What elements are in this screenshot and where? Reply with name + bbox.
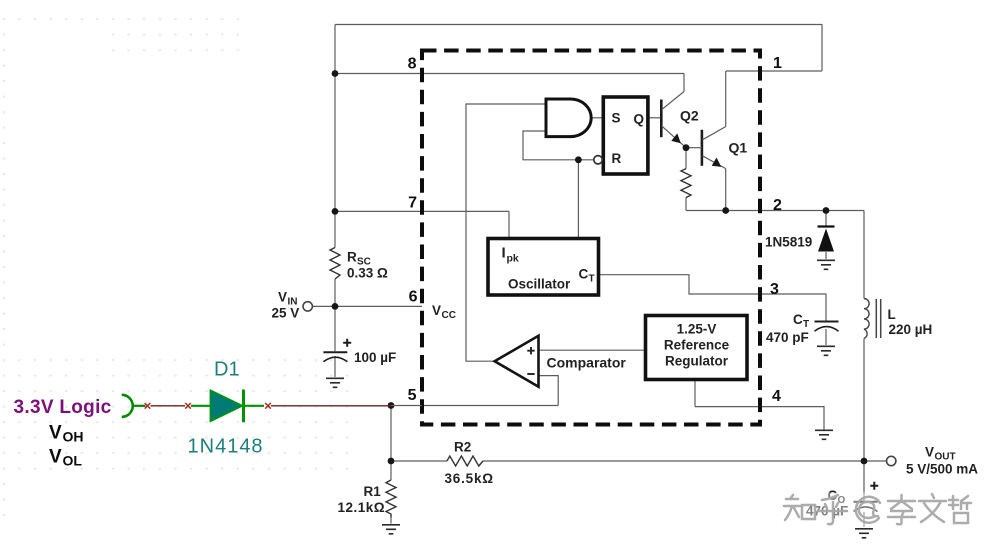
junction x mark 3 [265, 403, 271, 409]
svg-text:V: V [278, 290, 287, 305]
transistor Q2 [661, 92, 699, 148]
ground under R1 [382, 525, 400, 534]
capacitor CO 470uF [806, 482, 878, 519]
wire pin2 node down to inductor and to output node [863, 211, 865, 462]
svg-text:C: C [579, 267, 589, 282]
wire pin 1 [726, 70, 822, 72]
svg-text:2: 2 [773, 197, 782, 214]
svg-text:Q2: Q2 [680, 108, 699, 124]
reference regulator block U-ref [646, 316, 748, 380]
wire comparator minus input [539, 376, 559, 406]
node VOUT junction [861, 458, 868, 465]
svg-text:R: R [347, 250, 357, 265]
svg-text:C: C [793, 312, 803, 327]
wire pin 6 [312, 305, 422, 307]
resistor emitter R-E [681, 169, 691, 198]
watermark zhihu text [784, 494, 971, 524]
ground under 100uF cap [326, 378, 344, 387]
svg-text:0.33 Ω: 0.33 Ω [347, 266, 388, 281]
node pin2 diode junction [823, 207, 830, 214]
wire Q1 collector up to pin1 [725, 71, 727, 127]
VIN source terminal [272, 290, 313, 321]
svg-text:V: V [432, 303, 441, 318]
svg-text:Oscillator: Oscillator [508, 277, 571, 292]
svg-text:V: V [49, 447, 62, 468]
svg-text:R: R [612, 151, 622, 166]
node Q2 emitter junction [683, 144, 690, 151]
transistor Q1 [686, 127, 747, 169]
svg-text:L: L [888, 307, 896, 322]
diode 1N5819 [765, 227, 835, 252]
diode D1 1N4148 [191, 390, 264, 423]
svg-text:1.25-V: 1.25-V [677, 322, 717, 337]
svg-text:Regulator: Regulator [665, 354, 729, 369]
svg-text:12.1kΩ: 12.1kΩ [338, 500, 386, 515]
svg-text:3.3V Logic: 3.3V Logic [14, 397, 112, 418]
wire pin5 outside segment [391, 405, 422, 407]
dashed IC boundary box [422, 51, 760, 425]
comparator U-comp [495, 336, 627, 387]
wire pin 7 [335, 210, 509, 212]
wire R2 output line [391, 460, 887, 462]
svg-text:3: 3 [770, 281, 779, 298]
node R1 R2 junction [388, 458, 395, 465]
capacitor 100uF [323, 339, 396, 365]
svg-text:Q1: Q1 [729, 140, 748, 156]
wire Q1 emitter down [725, 169, 727, 211]
wire maroon segment 2 [271, 405, 391, 407]
svg-text:4: 4 [772, 388, 781, 405]
inductor L 220uH [864, 299, 932, 339]
svg-text:S: S [612, 111, 621, 126]
svg-text:Reference: Reference [664, 338, 730, 353]
wire pin5 node vertical to R1 R2 [390, 406, 392, 524]
wire pin 8 [335, 73, 684, 75]
svg-text:5: 5 [408, 387, 417, 404]
label VOL [49, 447, 82, 469]
wire AND lower input from R node [523, 131, 594, 160]
svg-text:5 V/500 mA: 5 V/500 mA [906, 462, 978, 477]
wire Q output to Q2 base [648, 117, 660, 119]
wire top rail [335, 25, 822, 72]
svg-text:D1: D1 [214, 359, 240, 381]
wire R node to oscillator [577, 160, 579, 239]
resistor R1 [338, 480, 397, 518]
wire pin 2 [686, 210, 864, 212]
resistor R2 [445, 440, 494, 487]
svg-text:Q: Q [634, 112, 645, 127]
svg-text:Comparator: Comparator [547, 355, 627, 371]
svg-text:36.5kΩ: 36.5kΩ [445, 471, 494, 486]
svg-text:470 pF: 470 pF [766, 330, 809, 345]
ground under CO cap [855, 529, 873, 538]
wire pin 5 [422, 405, 558, 407]
svg-text:1N4148: 1N4148 [188, 436, 264, 458]
svg-text:CC: CC [442, 310, 456, 321]
node pin7 junction [332, 208, 339, 215]
node pin8 rail junction [332, 70, 339, 77]
node Q1 emitter junction [722, 207, 729, 214]
svg-text:OH: OH [63, 429, 84, 445]
wire Ipk drop [508, 211, 510, 238]
svg-text:R2: R2 [454, 440, 471, 455]
svg-text:pk: pk [507, 253, 519, 265]
grid dots background [1, 16, 352, 518]
wire comparator output to AND input [466, 104, 546, 361]
connector arc logic input [122, 395, 146, 417]
wire oscillator CT to pin 3 and CT cap [599, 275, 827, 321]
wire AND output to S [591, 117, 603, 119]
ground under pin 4 [815, 430, 833, 439]
wire reference regulator to pin 4 [694, 380, 696, 407]
svg-text:V: V [925, 445, 934, 460]
node VIN junction [332, 303, 339, 310]
svg-text:6: 6 [409, 289, 418, 306]
oscillator block U-osc [488, 239, 599, 296]
node R-junction [575, 156, 582, 163]
SR latch U-latch [603, 97, 648, 174]
junction x mark 2 [185, 403, 191, 409]
capacitor CT 470pF [766, 312, 839, 345]
svg-text:8: 8 [408, 56, 417, 73]
wire left rail vertical [334, 25, 336, 378]
svg-text:R1: R1 [364, 484, 382, 499]
svg-text:V: V [49, 423, 62, 444]
watermark dim backdrop [781, 493, 973, 528]
junction x mark 1 [145, 403, 151, 409]
wire 1N5819 connections [825, 211, 827, 260]
wire maroon segment 1 [151, 405, 186, 407]
MAIN-WIRES [312, 25, 886, 528]
ground under 1N5819 [817, 260, 835, 269]
svg-text:7: 7 [408, 195, 417, 212]
VOUT terminal [887, 445, 979, 477]
svg-text:1: 1 [773, 55, 782, 72]
label VOH [49, 423, 84, 445]
resistor RSC [330, 248, 388, 281]
wire output cap CO [863, 461, 865, 527]
wire comparator plus input [539, 349, 646, 351]
svg-text:T: T [589, 274, 595, 285]
svg-text:100 µF: 100 µF [354, 350, 396, 365]
svg-text:220 µH: 220 µH [889, 322, 933, 337]
svg-text:1N5819: 1N5819 [765, 235, 812, 250]
wire pin 4 to ground [695, 407, 824, 430]
wire Q2 collector up to pin8 rail [683, 74, 685, 92]
svg-text:I: I [502, 245, 506, 262]
AND gate [546, 99, 591, 137]
inverter bubble at R input [594, 156, 602, 164]
wire emitter resistor connections [685, 148, 687, 211]
node D1 pin5 junction [388, 402, 395, 409]
svg-text:T: T [803, 319, 809, 330]
svg-text:25 V: 25 V [272, 306, 300, 321]
svg-text:OL: OL [63, 453, 83, 469]
wire CT cap to ground [825, 329, 827, 345]
ground under CT cap [817, 346, 835, 355]
